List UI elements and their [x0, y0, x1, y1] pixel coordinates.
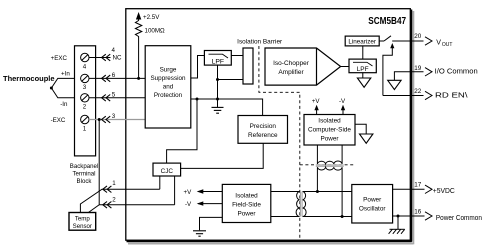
- arrow pin 5: [102, 95, 111, 102]
- svg-text:Isolated: Isolated: [235, 192, 258, 199]
- arrow wire 2: [103, 202, 112, 209]
- module shadow: [128, 11, 413, 244]
- svg-text:Precision: Precision: [250, 123, 277, 130]
- transformer T1 primary wire bottom: [271, 216, 300, 218]
- arrow pin 4: [102, 54, 111, 61]
- svg-text:Field-Side: Field-Side: [232, 201, 261, 208]
- svg-text:Protection: Protection: [154, 92, 183, 99]
- wire LPF bottom: [217, 65, 219, 107]
- svg-text:and: and: [163, 84, 174, 91]
- transformer T2 primary lead right: [341, 167, 343, 216]
- svg-text:3: 3: [83, 84, 87, 91]
- arrow pin 19: [425, 68, 432, 76]
- wire -In pin 5: [89, 97, 145, 99]
- svg-text:Power Common: Power Common: [436, 215, 482, 222]
- svg-text:2: 2: [112, 196, 116, 203]
- precision reference box: [238, 116, 288, 144]
- svg-text:20: 20: [414, 33, 422, 40]
- svg-text:5: 5: [112, 91, 116, 98]
- chassis ground: [389, 229, 405, 234]
- arrow +V field: [197, 189, 204, 193]
- svg-text:-V: -V: [339, 98, 346, 105]
- wire LPF2 to linearizer: [362, 46, 364, 59]
- arrow pin 20: [425, 37, 432, 45]
- svg-text:Temp: Temp: [75, 216, 91, 223]
- power oscillator box: [352, 185, 393, 224]
- arrow wire 1: [103, 186, 112, 193]
- node -EXC junction: [98, 118, 101, 121]
- arrow pin 6: [102, 75, 111, 82]
- arrow +V computer: [314, 105, 318, 111]
- transformer T2 secondary lead right: [341, 145, 343, 164]
- svg-text:Power: Power: [363, 197, 382, 204]
- svg-text:Power: Power: [237, 210, 256, 217]
- node thermocouple junction: [50, 87, 53, 90]
- wire surge to precision reference: [191, 99, 263, 116]
- node resistor to +In: [137, 77, 140, 80]
- svg-text:+2.5V: +2.5V: [143, 14, 160, 21]
- node CJC tap: [196, 98, 199, 101]
- wire temp sensor 1: [80, 189, 159, 212]
- isolation barrier bar: [243, 48, 253, 84]
- svg-text:16: 16: [414, 208, 422, 215]
- terminal 3 screw: [81, 74, 89, 82]
- svg-text:+V: +V: [184, 189, 193, 196]
- node chassis ground tap: [397, 215, 400, 218]
- svg-text:Linearizer: Linearizer: [348, 39, 376, 46]
- transformer T1 secondary wire bottom: [303, 216, 352, 218]
- io common triangle pin 19: [388, 80, 401, 89]
- surge suppression box: [145, 46, 191, 128]
- module outline SCM5B47: [126, 9, 411, 241]
- svg-text:1: 1: [112, 180, 116, 187]
- svg-text:Iso-Chopper: Iso-Chopper: [273, 60, 310, 67]
- ground field common: [212, 107, 224, 113]
- svg-text:NC: NC: [113, 55, 122, 62]
- transformer T2 primary winding: [317, 167, 342, 170]
- wire computer power to io common: [355, 124, 366, 134]
- wire switch to pin 20: [392, 40, 423, 42]
- wire common to barrier: [218, 79, 244, 81]
- svg-text:Thermocouple: Thermocouple: [3, 74, 54, 83]
- op-amp U1 Iso-Chopper Amplifier: [265, 48, 341, 85]
- svg-text:19: 19: [414, 65, 422, 72]
- arrow -V field: [197, 201, 204, 205]
- wire chassis ground: [397, 216, 399, 229]
- svg-text:Isolated: Isolated: [318, 118, 341, 125]
- wire CJC pin 1: [159, 176, 161, 189]
- wire field power ground: [200, 217, 223, 230]
- transformer T2 secondary lead left: [316, 145, 318, 164]
- wire CJC pin 2: [174, 176, 176, 205]
- arrow RD EN control: [390, 43, 394, 48]
- arrow +2.5V: [136, 12, 141, 20]
- wire pin 17: [393, 188, 425, 190]
- svg-text:6: 6: [112, 72, 116, 79]
- svg-text:Surge: Surge: [160, 67, 177, 74]
- transformer T1 primary winding: [296, 192, 299, 217]
- arrow pin 3: [102, 116, 111, 123]
- svg-text:100MΩ: 100MΩ: [145, 27, 165, 34]
- transformer T1 core: [300, 192, 302, 217]
- svg-text:1: 1: [83, 125, 87, 132]
- svg-text:V: V: [436, 39, 441, 47]
- io common triangle under LPF2: [357, 78, 370, 87]
- svg-text:SCM5B47: SCM5B47: [368, 16, 406, 27]
- svg-text:+In: +In: [61, 70, 70, 77]
- svg-text:+5VDC: +5VDC: [433, 188, 455, 195]
- svg-text:2: 2: [83, 104, 87, 111]
- svg-text:LPF: LPF: [357, 66, 369, 73]
- svg-text:CJC: CJC: [161, 168, 174, 175]
- svg-text:4: 4: [112, 47, 116, 54]
- svg-text:LPF: LPF: [212, 58, 224, 65]
- wire pin 22: [383, 95, 424, 97]
- isolated field-side power box: [222, 184, 270, 222]
- terminal 4 screw: [81, 53, 89, 61]
- wire -EXC to temp sensor: [88, 120, 99, 213]
- svg-text:3: 3: [112, 113, 116, 120]
- switch RD EN: [384, 36, 391, 41]
- arrow pin 17: [425, 185, 432, 193]
- arrow pin 22: [425, 91, 432, 99]
- wire +V computer: [316, 107, 318, 115]
- node T2 primary left: [316, 190, 319, 193]
- backpanel terminal block: [75, 46, 96, 156]
- svg-text:Oscillator: Oscillator: [359, 206, 387, 213]
- node LPF common: [216, 78, 219, 81]
- svg-text:4: 4: [83, 63, 87, 70]
- svg-text:Sensor: Sensor: [73, 223, 92, 230]
- wire pin 19: [394, 72, 423, 81]
- linearizer box: [345, 36, 379, 46]
- svg-text:Block: Block: [77, 178, 93, 185]
- wire -V computer: [342, 107, 344, 115]
- wire thermocouple -In: [51, 88, 80, 98]
- svg-text:-In: -In: [60, 101, 68, 108]
- transformer T2 core: [316, 164, 344, 166]
- svg-text:22: 22: [414, 88, 422, 95]
- svg-text:Suppression: Suppression: [150, 75, 186, 82]
- wire +In pin 6: [89, 77, 145, 79]
- io common triangle computer power: [360, 134, 373, 143]
- isolated computer-side power box: [304, 115, 355, 146]
- transformer T1 primary wire top: [271, 191, 300, 193]
- wire NC stub pin 4: [89, 57, 111, 59]
- resistor R 100MOhm pull-up: [135, 19, 141, 79]
- transformer T2 secondary winding: [317, 161, 342, 164]
- wire -EXC pin 3 (gray): [89, 119, 145, 121]
- svg-text:I/O Common: I/O Common: [435, 68, 478, 75]
- wire amp to LPF2: [341, 66, 349, 68]
- wire linearizer to switch: [379, 40, 384, 42]
- temp sensor: [69, 213, 96, 231]
- wire thermocouple +In: [51, 78, 80, 88]
- svg-text:17: 17: [414, 182, 422, 189]
- svg-text:Terminal: Terminal: [72, 171, 95, 178]
- isolation barrier dashed line lower branch: [300, 164, 354, 166]
- svg-text:RD EN\: RD EN\: [435, 93, 468, 100]
- LPF box 2: [349, 59, 376, 73]
- svg-text:Isolation Barrier: Isolation Barrier: [237, 39, 283, 46]
- svg-text:Reference: Reference: [248, 132, 278, 139]
- svg-text:Amplifier: Amplifier: [278, 69, 304, 76]
- transformer T1 secondary winding: [303, 192, 306, 217]
- svg-text:+EXC: +EXC: [51, 55, 68, 62]
- wire LPF to isolation barrier: [231, 55, 243, 57]
- terminal 2 screw: [81, 94, 89, 102]
- arrow pin 16: [425, 212, 432, 220]
- svg-text:Computer-Side: Computer-Side: [308, 127, 351, 134]
- ground field power: [193, 231, 206, 236]
- svg-text:Backpanel: Backpanel: [70, 163, 98, 170]
- node reference tap: [216, 98, 219, 101]
- wire surge to LPF: [191, 56, 205, 79]
- svg-text:OUT: OUT: [442, 42, 453, 48]
- wire CJC to tap: [167, 99, 197, 163]
- wire RD EN control: [383, 48, 392, 96]
- node T2 primary right: [341, 215, 344, 218]
- wire pin 16: [393, 215, 425, 217]
- LPF box 1: [204, 51, 231, 66]
- CJC box: [153, 163, 181, 176]
- transformer T2 primary lead left: [316, 167, 318, 191]
- arrow -V computer: [341, 105, 345, 111]
- transformer T1 secondary wire top: [303, 191, 352, 193]
- wire temp sensor 2: [99, 204, 174, 206]
- wire LPF2 to io common triangle: [362, 73, 364, 78]
- svg-text:-EXC: -EXC: [51, 117, 66, 124]
- svg-text:Power: Power: [320, 136, 339, 143]
- svg-text:+V: +V: [312, 98, 321, 105]
- svg-text:-V: -V: [185, 201, 192, 208]
- wire +V field: [198, 191, 222, 193]
- terminal 1 screw: [81, 115, 89, 123]
- wire -V field: [198, 203, 222, 205]
- wire precision reference to CJC: [181, 143, 264, 168]
- isolation barrier dashed line: [259, 46, 300, 240]
